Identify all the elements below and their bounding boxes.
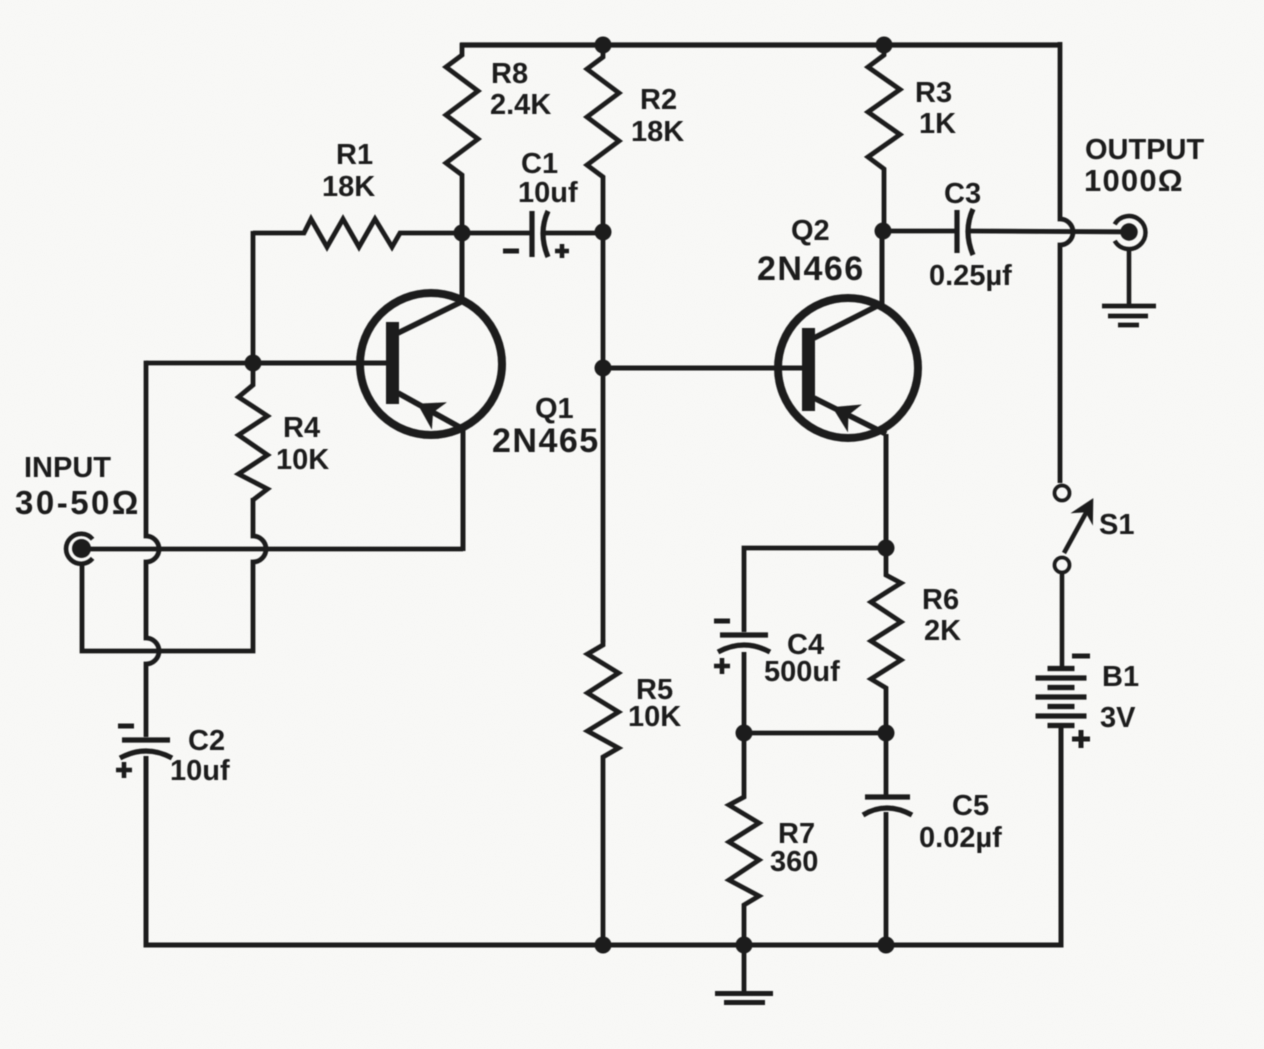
svg-text:Q2: Q2 <box>791 215 830 247</box>
label Q1 2N465 <box>492 393 600 460</box>
svg-text:18K: 18K <box>631 116 684 148</box>
label R5 10K <box>628 674 681 733</box>
label C1 10uf <box>518 148 578 209</box>
resistor R8 2.4K <box>446 43 478 233</box>
resistor R6 2K <box>871 548 901 733</box>
svg-text:OUTPUT: OUTPUT <box>1085 134 1205 166</box>
node ground rail / R5 <box>595 937 612 954</box>
svg-text:R8: R8 <box>491 58 528 90</box>
node C4 / R7 junction <box>736 725 753 742</box>
wire R1 left corner down to Q1 base node <box>251 231 256 363</box>
wire R4 bottom with hop over input wire <box>82 498 266 651</box>
svg-text:R2: R2 <box>640 84 677 116</box>
svg-text:R3: R3 <box>915 77 952 109</box>
node C1 / R2 junction <box>595 224 612 241</box>
svg-text:S1: S1 <box>1099 509 1134 541</box>
resistor R3 1K <box>868 43 900 231</box>
wire base node to feedback drop <box>146 361 253 366</box>
svg-text:30-50Ω: 30-50Ω <box>15 484 141 521</box>
label R6 2K <box>922 584 961 647</box>
svg-text:10K: 10K <box>628 701 681 733</box>
wire Q2 collector <box>880 231 885 304</box>
resistor R1 18K <box>253 219 462 247</box>
svg-text:2.4K: 2.4K <box>490 89 551 121</box>
wire Q2 emitter <box>884 434 889 548</box>
label C5 0.02µf <box>919 790 1002 854</box>
svg-text:B1: B1 <box>1102 661 1139 693</box>
input jack <box>66 534 93 564</box>
svg-text:R4: R4 <box>283 412 320 444</box>
svg-text:C1: C1 <box>521 148 558 180</box>
ground symbol at output <box>1102 306 1156 325</box>
wire output jack to ground <box>1127 250 1132 305</box>
resistor R2 18K <box>587 43 619 232</box>
svg-text:C5: C5 <box>952 790 989 822</box>
label OUTPUT 1000Ω <box>1084 134 1205 198</box>
wire input jack to Q1 emitter <box>87 547 463 552</box>
node Q2 base junction <box>595 360 612 377</box>
svg-text:360: 360 <box>770 846 818 878</box>
capacitor C2 10uf <box>116 726 172 778</box>
resistor R4 10K <box>239 363 268 500</box>
label R7 360 <box>770 818 818 878</box>
node top rail / R2 <box>595 37 612 54</box>
wire bottom ground rail <box>146 726 1061 945</box>
svg-text:500uf: 500uf <box>764 656 840 688</box>
transistor Q1 <box>360 293 502 435</box>
label C3 0.25µf <box>929 178 1012 292</box>
wire Q1 collector <box>460 233 465 302</box>
label C2 10uf <box>170 725 230 787</box>
svg-text:INPUT: INPUT <box>24 452 111 484</box>
label B1 3V <box>1100 661 1139 734</box>
wire Q1 emitter <box>461 429 466 551</box>
capacitor C5 0.02µf <box>863 733 912 945</box>
svg-text:2N465: 2N465 <box>492 422 600 460</box>
svg-text:0.02µf: 0.02µf <box>919 822 1002 854</box>
label INPUT 30-50Ω <box>15 452 141 521</box>
svg-text:18K: 18K <box>322 171 375 203</box>
battery B1 3V <box>1036 656 1091 748</box>
capacitor C3 0.25µf <box>883 209 1121 255</box>
ground symbol at bottom <box>715 945 773 1003</box>
node Q2 collector junction <box>875 223 892 240</box>
wire C4 to R7 node <box>742 652 747 733</box>
wire right supply drop with hop over C3 wire <box>1060 42 1073 483</box>
svg-text:10uf: 10uf <box>518 177 578 209</box>
node ground rail / C5 <box>878 937 895 954</box>
label R2 18K <box>631 84 684 148</box>
output jack <box>1115 216 1146 249</box>
wire emitter node to C4 <box>744 548 886 632</box>
wire R7 node to C5 node <box>744 731 886 736</box>
resistor R7 360 <box>729 733 759 945</box>
svg-text:10K: 10K <box>276 444 329 476</box>
wire Q2 base node to R5 <box>601 368 606 642</box>
svg-text:C2: C2 <box>188 725 225 757</box>
node R6 / C5 junction <box>878 725 895 742</box>
resistor R5 10K <box>588 640 619 945</box>
node Q1 collector junction <box>454 225 471 242</box>
switch S1 <box>1055 486 1093 573</box>
label R4 10K <box>276 412 329 476</box>
label C4 500uf <box>764 629 840 688</box>
label R3 1K <box>915 77 956 140</box>
node top rail / R3 <box>876 37 893 54</box>
wire S1 to battery <box>1060 572 1065 668</box>
svg-text:R6: R6 <box>922 584 959 616</box>
wire top supply rail <box>460 42 1062 47</box>
label R8 2.4K <box>490 58 551 121</box>
svg-text:2K: 2K <box>924 615 961 647</box>
wire Q1 base <box>253 361 388 366</box>
svg-text:1K: 1K <box>919 108 956 140</box>
svg-text:0.25µf: 0.25µf <box>929 260 1012 292</box>
wire R2 node to Q2 base node <box>601 232 606 368</box>
node Q2 emitter / R6 / C4 junction <box>878 540 895 557</box>
node Q1 base junction <box>245 355 262 372</box>
label R1 18K <box>322 139 375 203</box>
capacitor C1 10uf <box>462 211 603 258</box>
node ground rail / R7 <box>736 937 753 954</box>
capacitor C4 500uf <box>714 621 770 674</box>
svg-text:10uf: 10uf <box>170 755 230 787</box>
svg-text:C3: C3 <box>944 178 981 210</box>
svg-text:Q1: Q1 <box>535 393 574 425</box>
svg-text:R1: R1 <box>336 139 373 171</box>
svg-text:3V: 3V <box>1100 702 1136 734</box>
wire Q2 base <box>603 366 804 371</box>
label Q2 2N466 <box>757 215 865 288</box>
wire feedback drop with hops over input wires <box>146 361 159 737</box>
svg-text:1000Ω: 1000Ω <box>1084 163 1184 198</box>
transistor Q2 <box>778 298 918 438</box>
svg-text:2N466: 2N466 <box>757 250 865 288</box>
